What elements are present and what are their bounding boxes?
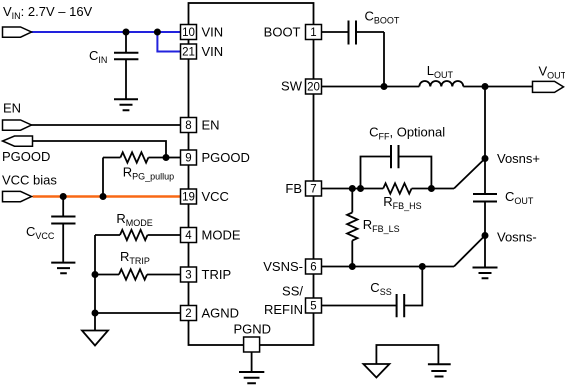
svg-text:4: 4 [185, 230, 192, 242]
wire VIN blue rail [32, 31, 181, 33]
wire pullup to VCC rail [102, 158, 104, 197]
node Vosns+ [482, 155, 489, 162]
wire FB rail [322, 188, 384, 190]
node VOUT output flag [533, 81, 564, 92]
svg-text:VCC bias: VCC bias [2, 172, 57, 187]
inductor L_OUT [419, 81, 463, 87]
resistor R_FB_LS [347, 189, 357, 267]
junction C_VCC on VCC rail [60, 193, 67, 200]
pin 5 SS/REFIN [264, 283, 322, 317]
wire pin 9 to junction [166, 157, 181, 159]
wire AGND [95, 312, 181, 314]
capacitor C_SS [322, 267, 423, 318]
svg-text:7: 7 [310, 184, 316, 196]
junction C_SS on VSNS- rail [419, 263, 426, 270]
wire diagonal VSNS- to Vosns- [454, 236, 485, 267]
pin 1 BOOT [264, 24, 322, 39]
ground for C_IN [114, 99, 138, 110]
svg-text:MODE: MODE [202, 227, 241, 242]
svg-text:6: 6 [310, 262, 316, 274]
junction AGND on bus [92, 310, 99, 317]
svg-text:3: 3 [185, 270, 191, 282]
junction R_FB_LS bottom [349, 263, 356, 270]
op-amp U1 IC body [189, 3, 314, 345]
junction C_FF right [428, 185, 435, 192]
pin 7 FB [285, 181, 321, 196]
pin 21 VIN [181, 44, 224, 59]
ground signal triangle for AGND [82, 331, 108, 346]
junction C_IN on VIN rail [123, 29, 130, 36]
svg-text:SW: SW [281, 79, 303, 94]
capacitor C_BOOT [322, 21, 385, 45]
node VIN input flag [3, 27, 32, 37]
svg-text:21: 21 [182, 47, 195, 59]
pin 9 PGOOD [181, 150, 250, 165]
svg-text:REFIN: REFIN [264, 302, 303, 317]
ground power at tie right [428, 364, 451, 376]
wire VIN branch to pin 21 [157, 32, 180, 52]
ground signal triangle at tie left [363, 364, 389, 378]
svg-text:5: 5 [310, 301, 316, 313]
wire VOUT to Vosns+ [484, 87, 486, 194]
svg-text:EN: EN [202, 117, 220, 132]
svg-text:PGOOD: PGOOD [2, 149, 50, 164]
ground for C_OUT [473, 268, 498, 279]
svg-text:VIN: VIN [202, 24, 224, 39]
ground for PGND [239, 372, 264, 383]
pin 4 MODE [181, 227, 241, 242]
svg-text:Vosns+: Vosns+ [497, 151, 540, 166]
node Vosns- [482, 232, 489, 239]
capacitor C1 C_IN [114, 32, 138, 99]
wire EN [31, 124, 180, 126]
svg-text:19: 19 [182, 192, 195, 204]
wire AGND-PGND tie [376, 345, 438, 364]
junction R_FB_LS top [349, 185, 356, 192]
pin 20 SW [281, 79, 321, 95]
svg-text:PGOOD: PGOOD [202, 150, 250, 165]
wire PGOOD [33, 141, 167, 158]
node VCC bias input flag [3, 191, 32, 201]
svg-text:AGND: AGND [202, 305, 240, 320]
ground for C_VCC [51, 263, 75, 274]
pin 19 VCC [181, 189, 229, 204]
svg-text:VIN: VIN [202, 44, 224, 59]
wire diagonal FB to Vosns+ [454, 159, 485, 189]
svg-text:9: 9 [185, 153, 191, 165]
wire MODE-TRIP-AGND bus [94, 235, 96, 313]
junction pullup on VCC rail [100, 193, 107, 200]
junction C_BOOT on SW rail [381, 83, 388, 90]
svg-text:10: 10 [182, 27, 195, 39]
pin 3 TRIP [181, 267, 232, 282]
wire bus to ground [94, 313, 96, 330]
resistor R_MODE [95, 230, 181, 240]
pin 10 VIN [181, 24, 224, 39]
svg-text:EN: EN [3, 100, 21, 115]
resistor R_PG_pullup [103, 152, 166, 162]
capacitor C_VCC [51, 197, 75, 262]
svg-text:8: 8 [185, 120, 191, 132]
junction VOUT sense [482, 83, 489, 90]
wire C_BOOT to SW [383, 32, 385, 87]
node EN input flag [3, 120, 32, 130]
svg-text:1: 1 [310, 27, 316, 39]
svg-text:VSNS-: VSNS- [263, 259, 303, 274]
pin 8 EN [181, 117, 220, 132]
svg-text:PGND: PGND [234, 322, 272, 337]
resistor R_FB_HS [383, 183, 411, 193]
capacitor C_FF branch [361, 145, 432, 189]
pin 6 VSNS- [263, 259, 321, 274]
junction VIN branch [154, 29, 161, 36]
svg-text:VCC: VCC [202, 189, 229, 204]
pin PGND [234, 322, 272, 353]
junction C_FF left [357, 185, 364, 192]
wire VSNS- rail [322, 266, 455, 268]
svg-text:TRIP: TRIP [202, 267, 232, 282]
wire L_OUT to VOUT [463, 86, 533, 88]
junction R_TRIP on bus [92, 271, 99, 278]
svg-text:FB: FB [285, 181, 302, 196]
svg-text:SS/: SS/ [282, 283, 303, 298]
pin 2 AGND [181, 305, 240, 320]
svg-text:20: 20 [307, 82, 320, 94]
wire FB rail right [412, 188, 454, 190]
wire PGND to ground [251, 352, 253, 372]
svg-text:Vosns-: Vosns- [497, 229, 537, 244]
capacitor C_OUT [473, 194, 497, 267]
resistor R_TRIP [95, 269, 181, 279]
junction PGOOD pullup [163, 154, 170, 161]
wire VCC orange rail [33, 195, 181, 197]
node PGOOD output flag [3, 136, 33, 146]
svg-text:2: 2 [185, 308, 191, 320]
wire SW rail [322, 86, 420, 88]
svg-text:BOOT: BOOT [264, 24, 301, 39]
